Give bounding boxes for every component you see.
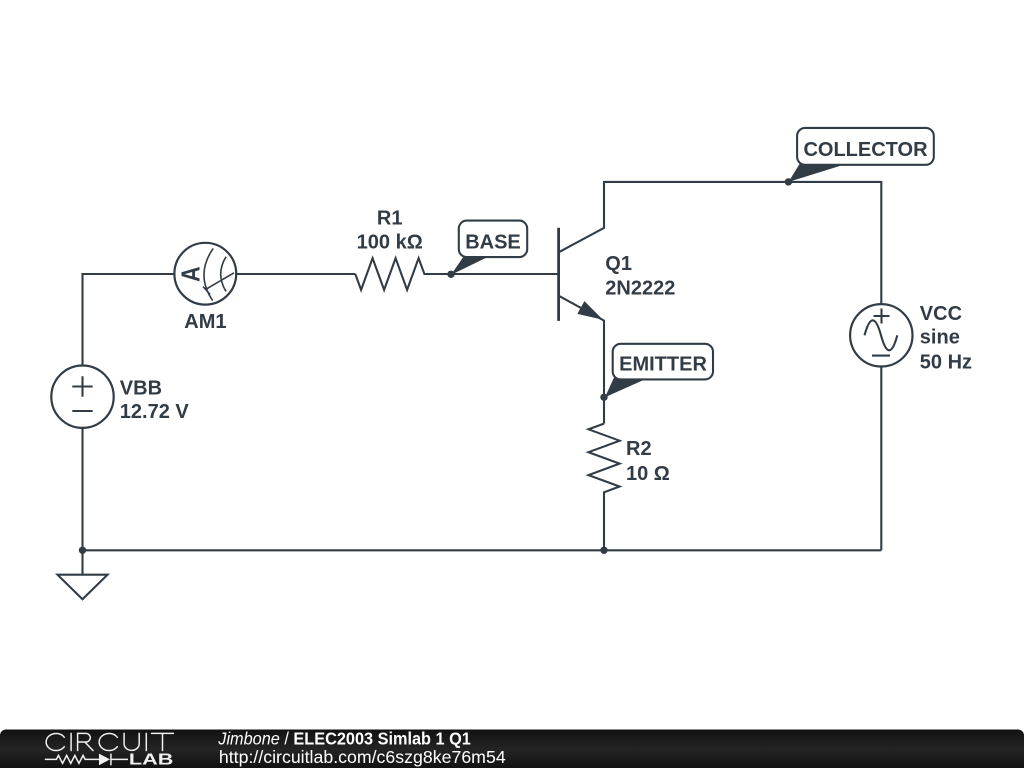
svg-text:100 kΩ: 100 kΩ [357, 231, 423, 253]
svg-text:Jimbone / ELEC2003 Simlab 1 Q1: Jimbone / ELEC2003 Simlab 1 Q1 [217, 729, 471, 749]
svg-text:LAB: LAB [129, 751, 174, 768]
svg-text:http://circuitlab.com/c6szg8ke: http://circuitlab.com/c6szg8ke76m54 [219, 747, 506, 767]
svg-text:Q1: Q1 [605, 253, 632, 275]
svg-text:EMITTER: EMITTER [619, 354, 707, 376]
svg-text:12.72 V: 12.72 V [120, 401, 190, 423]
svg-text:sine: sine [920, 327, 960, 349]
svg-text:VCC: VCC [920, 303, 962, 325]
svg-text:AM1: AM1 [184, 311, 226, 333]
svg-text:2N2222: 2N2222 [605, 278, 675, 300]
svg-text:10 Ω: 10 Ω [626, 463, 670, 485]
svg-text:R1: R1 [377, 207, 403, 229]
svg-text:A: A [176, 266, 206, 282]
svg-text:BASE: BASE [465, 231, 521, 253]
svg-text:VBB: VBB [120, 378, 162, 400]
svg-text:50 Hz: 50 Hz [920, 352, 972, 374]
svg-text:COLLECTOR: COLLECTOR [803, 139, 928, 161]
svg-text:R2: R2 [626, 438, 652, 460]
